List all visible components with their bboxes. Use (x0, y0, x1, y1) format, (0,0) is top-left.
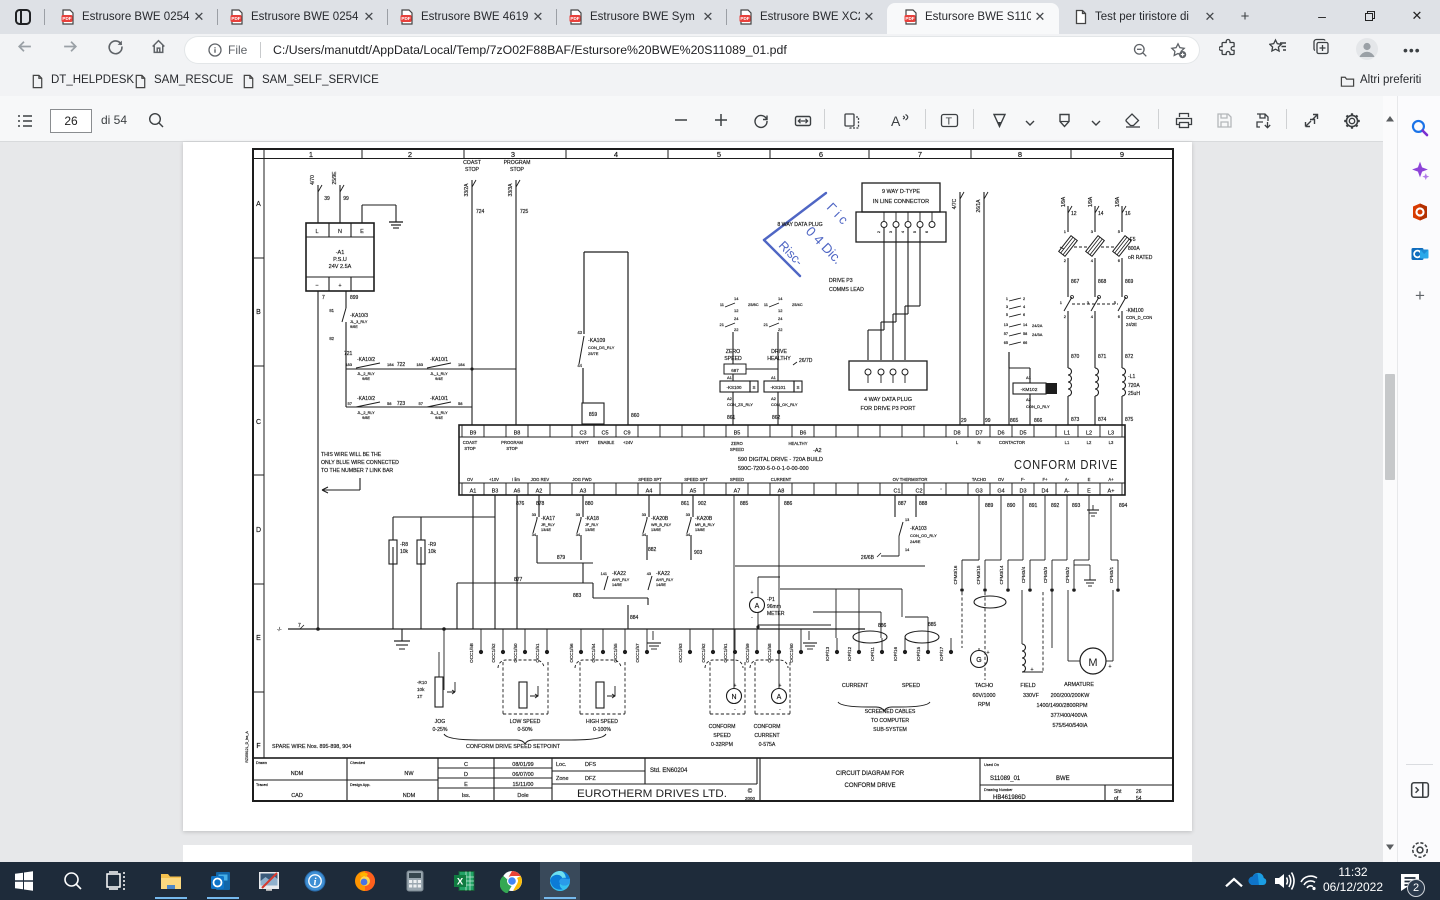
svg-text:21: 21 (764, 322, 769, 327)
svg-text:15/11/00: 15/11/00 (512, 782, 533, 788)
svg-text:903: 903 (694, 550, 703, 556)
svg-text:IOP/17: IOP/17 (939, 646, 944, 661)
svg-text:A1: A1 (470, 489, 477, 495)
svg-text:OV THERMISTOR: OV THERMISTOR (893, 477, 928, 482)
svg-text:24: 24 (734, 316, 739, 321)
svg-text:-R9: -R9 (428, 542, 436, 548)
svg-text:METER: METER (767, 611, 785, 617)
svg-text:-KS101: -KS101 (770, 385, 786, 390)
svg-text:200/200/200KW: 200/200/200KW (1051, 693, 1091, 699)
svg-text:FOR DRIVE P3 PORT: FOR DRIVE P3 PORT (861, 406, 917, 412)
svg-text:P.S.U: P.S.U (333, 257, 347, 263)
svg-text:SPEED: SPEED (713, 733, 731, 739)
svg-text:889: 889 (985, 503, 994, 509)
svg-text:E: E (1087, 489, 1091, 495)
svg-text:DFZ: DFZ (585, 776, 596, 782)
svg-text:1: 1 (309, 150, 313, 159)
svg-text:PDF: PDF (740, 16, 749, 21)
svg-text:26/1A: 26/1A (976, 199, 982, 213)
svg-text:34: 34 (686, 533, 690, 537)
svg-text:0-25%: 0-25% (433, 727, 448, 733)
svg-text:N: N (338, 229, 342, 235)
svg-text:CURRENT: CURRENT (754, 733, 780, 739)
svg-text:4: 4 (614, 150, 618, 159)
svg-text:L2: L2 (1086, 431, 1092, 437)
svg-text:COAST: COAST (463, 440, 478, 445)
svg-text:25uH: 25uH (1128, 391, 1140, 397)
svg-text:43: 43 (577, 330, 582, 335)
svg-text:HIGH SPEED: HIGH SPEED (586, 719, 618, 725)
svg-text:58: 58 (387, 401, 392, 406)
svg-text:34: 34 (532, 533, 536, 537)
svg-text:60V/1000: 60V/1000 (972, 693, 995, 699)
svg-text:57: 57 (1004, 332, 1008, 336)
svg-text:CFM3/1: CFM3/1 (1109, 566, 1114, 583)
svg-text:26/7D: 26/7D (799, 358, 813, 364)
svg-text:878: 878 (536, 501, 545, 507)
svg-text:58: 58 (458, 401, 463, 406)
svg-text:PDF: PDF (62, 16, 71, 21)
svg-text:-KS100: -KS100 (726, 385, 742, 390)
svg-text:9/4E: 9/4E (435, 377, 443, 381)
svg-text:882: 882 (648, 547, 657, 553)
svg-text:IOP/16: IOP/16 (893, 646, 898, 661)
svg-text:CAD: CAD (291, 793, 303, 799)
svg-text:STOP: STOP (506, 446, 518, 451)
svg-text:AHR_RLY: AHR_RLY (612, 578, 630, 582)
svg-text:B3: B3 (492, 489, 499, 495)
svg-text:65: 65 (1004, 341, 1008, 345)
svg-text:CONFORM DRIVE SPEED SETPOINT: CONFORM DRIVE SPEED SETPOINT (466, 744, 561, 750)
svg-text:14: 14 (734, 296, 739, 301)
svg-text:AHR_RLY: AHR_RLY (656, 578, 674, 582)
svg-text:F-: F- (1021, 477, 1026, 482)
svg-text:860: 860 (631, 413, 640, 419)
svg-text:C5: C5 (601, 431, 608, 437)
svg-text:JOG REV: JOG REV (531, 477, 550, 482)
svg-text:06/07/00: 06/07/00 (512, 772, 533, 778)
svg-text:A6: A6 (514, 489, 521, 495)
svg-text:875: 875 (1125, 417, 1134, 423)
svg-text:3: 3 (1006, 305, 1008, 309)
svg-text:-R10: -R10 (417, 680, 427, 685)
svg-text:800A: 800A (1128, 246, 1140, 252)
svg-text:E: E (360, 229, 364, 235)
svg-text:9/6E: 9/6E (350, 325, 358, 329)
svg-text:T: T (946, 116, 953, 128)
svg-text:687: 687 (731, 368, 739, 373)
svg-text:Zone: Zone (556, 776, 569, 782)
svg-text:RPM: RPM (978, 702, 990, 708)
svg-text:4: 4 (1091, 258, 1094, 263)
svg-text:of: of (1114, 796, 1119, 802)
svg-text:Std. EN60204: Std. EN60204 (650, 768, 688, 774)
svg-text:34: 34 (576, 533, 580, 537)
svg-text:C9: C9 (623, 431, 630, 437)
svg-text:21: 21 (720, 322, 725, 327)
svg-text:14: 14 (905, 548, 909, 552)
svg-text:24/6E: 24/6E (910, 539, 921, 544)
svg-text:874: 874 (1098, 417, 1107, 423)
svg-text:+10V: +10V (489, 477, 499, 482)
svg-text:10k: 10k (400, 549, 409, 555)
svg-text:1/9A: 1/9A (1088, 196, 1094, 207)
svg-text:CIRCUIT DIAGRAM FOR: CIRCUIT DIAGRAM FOR (836, 771, 905, 777)
svg-text:81: 81 (329, 308, 334, 313)
svg-text:A+: A+ (1108, 489, 1115, 495)
svg-text:NW: NW (404, 771, 414, 777)
svg-text:STOP: STOP (510, 167, 525, 173)
svg-text:PDF: PDF (231, 16, 240, 21)
svg-text:JOG: JOG (435, 719, 446, 725)
svg-text:25/7E: 25/7E (588, 351, 599, 356)
svg-text:893: 893 (1072, 503, 1081, 509)
svg-text:OCC1/55: OCC1/55 (613, 643, 618, 663)
svg-text:A2: A2 (1026, 397, 1032, 402)
svg-text:26: 26 (1136, 789, 1142, 795)
svg-text:34: 34 (642, 533, 646, 537)
svg-text:12: 12 (778, 308, 783, 313)
svg-text:F+: F+ (1042, 477, 1048, 482)
svg-text:SPEED: SPEED (730, 477, 744, 482)
svg-text:-/-: -/- (277, 627, 282, 633)
svg-text:13/8E: 13/8E (695, 528, 705, 532)
svg-text:0-575A: 0-575A (759, 742, 776, 748)
svg-text:868: 868 (1098, 279, 1107, 285)
svg-text:D4: D4 (1041, 489, 1048, 495)
svg-text:DFS: DFS (585, 762, 596, 768)
svg-text:COMMS LEAD: COMMS LEAD (829, 287, 864, 293)
svg-text:725: 725 (520, 209, 529, 215)
svg-text:894: 894 (1119, 503, 1128, 509)
svg-text:25/8C: 25/8C (748, 302, 759, 307)
svg-text:ZERO: ZERO (726, 349, 740, 355)
svg-text:14/5E: 14/5E (612, 583, 622, 587)
svg-text:25/9E: 25/9E (332, 171, 338, 185)
svg-text:IOP/15: IOP/15 (916, 646, 921, 661)
svg-text:-: - (779, 707, 781, 713)
svg-text:3: 3 (889, 231, 893, 233)
svg-text:C1: C1 (893, 489, 900, 495)
svg-text:724: 724 (476, 209, 485, 215)
svg-text:PROGRAM: PROGRAM (504, 160, 531, 166)
svg-text:HEALTHY: HEALTHY (788, 441, 807, 446)
svg-text:-KM102: -KM102 (1021, 387, 1038, 393)
svg-text:CONFORM DRIVE: CONFORM DRIVE (845, 783, 896, 789)
svg-text:+: + (734, 683, 737, 689)
svg-text:58: 58 (1023, 332, 1027, 336)
svg-text:D5: D5 (1019, 431, 1026, 437)
svg-text:-A1: -A1 (336, 250, 345, 256)
svg-text:S11089_01: S11089_01 (990, 776, 1021, 782)
svg-text:CONTACTOR: CONTACTOR (999, 440, 1025, 445)
svg-text:Risc-: Risc- (776, 238, 806, 268)
svg-text:3: 3 (1091, 229, 1094, 234)
svg-text:1T: 1T (417, 694, 423, 699)
svg-text:CURRENT: CURRENT (771, 477, 792, 482)
svg-text:590 DIGITAL DRIVE - 720A BUILD: 590 DIGITAL DRIVE - 720A BUILD (738, 457, 823, 463)
svg-text:872: 872 (1125, 354, 1134, 360)
svg-text:2: 2 (1064, 258, 1067, 263)
svg-text:1/9A: 1/9A (1115, 196, 1121, 207)
svg-text:SCREENED CABLES: SCREENED CABLES (865, 709, 916, 715)
svg-text:-KA22: -KA22 (656, 571, 670, 577)
svg-text:9: 9 (1120, 150, 1124, 159)
svg-text:721: 721 (344, 351, 353, 357)
svg-text:D6: D6 (997, 431, 1004, 437)
svg-text:880: 880 (585, 501, 594, 507)
svg-text:1: 1 (1064, 229, 1067, 234)
svg-text:-: - (751, 615, 753, 621)
svg-text:886: 886 (784, 501, 793, 507)
svg-text:L3: L3 (1109, 440, 1114, 445)
svg-text:43: 43 (647, 572, 651, 576)
svg-text:08/01/99: 08/01/99 (512, 762, 533, 768)
svg-text:TO THE NUMBER 7 LINK BAR: TO THE NUMBER 7 LINK BAR (321, 468, 393, 474)
svg-text:-P1: -P1 (767, 597, 775, 603)
svg-text:CFM3/2: CFM3/2 (1065, 566, 1070, 583)
svg-text:7: 7 (322, 295, 325, 301)
svg-text:N: N (977, 440, 980, 445)
svg-text:EUROTHERM DRIVES LTD.: EUROTHERM DRIVES LTD. (577, 788, 727, 800)
svg-text:HB461986D: HB461986D (993, 795, 1026, 801)
svg-text:870: 870 (1071, 354, 1080, 360)
svg-text:A: A (256, 201, 261, 208)
svg-text:888: 888 (919, 501, 928, 507)
svg-text:885: 885 (740, 501, 749, 507)
svg-text:CFM3/15: CFM3/15 (976, 565, 981, 584)
svg-text:884: 884 (630, 615, 639, 621)
svg-text:16: 16 (1125, 211, 1131, 217)
svg-text:Drawing Number: Drawing Number (984, 788, 1013, 792)
svg-text:THIS WIRE WILL BE THE: THIS WIRE WILL BE THE (321, 452, 382, 458)
svg-text:7: 7 (918, 150, 922, 159)
svg-text:oR RATED: oR RATED (1128, 255, 1153, 261)
svg-text:869: 869 (1125, 279, 1134, 285)
svg-text:RZ35812L_D_lss_A: RZ35812L_D_lss_A (245, 731, 249, 763)
svg-text:+: + (1030, 667, 1033, 673)
svg-text:CON_ZS_RLY: CON_ZS_RLY (727, 402, 753, 407)
svg-text:-: - (734, 707, 736, 713)
svg-text:TACHO: TACHO (972, 477, 987, 482)
svg-text:D8: D8 (953, 431, 960, 437)
svg-text:L1: L1 (1064, 431, 1070, 437)
svg-text:ENABLE: ENABLE (598, 440, 615, 445)
svg-text:Iss.: Iss. (462, 793, 471, 799)
svg-text:-KA20B: -KA20B (695, 516, 713, 522)
svg-text:0-50%: 0-50% (518, 727, 533, 733)
svg-text:-KA10/1: -KA10/1 (430, 357, 448, 363)
svg-text:590C-7200-5-0-0-1-0-00-000: 590C-7200-5-0-0-1-0-00-000 (738, 466, 809, 472)
svg-text:N: N (731, 694, 736, 701)
svg-text:2: 2 (408, 150, 412, 159)
svg-text:A-: A- (1064, 489, 1070, 495)
svg-text:7: 7 (298, 623, 301, 629)
svg-text:FIELD: FIELD (1020, 683, 1035, 689)
svg-text:A2: A2 (536, 489, 543, 495)
svg-text:8: 8 (1018, 150, 1022, 159)
svg-text:867: 867 (1071, 279, 1080, 285)
svg-text:CON_OK_RLY: CON_OK_RLY (771, 402, 798, 407)
svg-text:6: 6 (925, 231, 929, 233)
svg-text:CONFORM DRIVE: CONFORM DRIVE (1014, 458, 1118, 472)
svg-text:C3: C3 (579, 431, 586, 437)
svg-text:5: 5 (717, 150, 721, 159)
svg-text:8 WAY DATA PLUG: 8 WAY DATA PLUG (777, 222, 822, 228)
svg-text:99: 99 (343, 196, 349, 202)
svg-text:5: 5 (1118, 229, 1121, 234)
svg-text:13: 13 (905, 518, 909, 522)
svg-text:A5: A5 (690, 489, 697, 495)
svg-text:44: 44 (577, 363, 582, 368)
svg-text:885: 885 (928, 622, 937, 628)
svg-text:Traced: Traced (256, 783, 268, 787)
svg-text:JL_2_RLY: JL_2_RLY (357, 411, 375, 415)
svg-text:890: 890 (1007, 503, 1016, 509)
svg-text:B5: B5 (734, 431, 741, 437)
svg-text:14: 14 (1098, 211, 1104, 217)
svg-text:2: 2 (1064, 314, 1067, 319)
svg-text:A1: A1 (727, 375, 733, 380)
svg-text:862: 862 (772, 415, 781, 421)
svg-text:MR_B_RLY: MR_B_RLY (695, 523, 715, 527)
svg-text:A8: A8 (778, 489, 785, 495)
svg-text:9/4E: 9/4E (435, 416, 443, 420)
svg-text:CONFORM: CONFORM (709, 724, 736, 730)
svg-text:A2: A2 (727, 396, 733, 401)
svg-text:TO COMPUTER: TO COMPUTER (871, 718, 909, 724)
svg-text:184: 184 (458, 362, 465, 367)
svg-text:DRIVE: DRIVE (771, 349, 787, 355)
svg-text:BWE: BWE (1056, 776, 1070, 782)
svg-text:L3: L3 (1108, 431, 1114, 437)
svg-text:13/5E: 13/5E (585, 528, 595, 532)
svg-text:Sht: Sht (1114, 789, 1122, 795)
svg-text:ONLY BLUE WIRE CONNECTED: ONLY BLUE WIRE CONNECTED (321, 460, 399, 466)
svg-text:11: 11 (764, 302, 769, 307)
svg-text:ARMATURE: ARMATURE (1064, 682, 1094, 688)
svg-text:NDM: NDM (403, 793, 416, 799)
svg-text:2000: 2000 (745, 796, 756, 801)
svg-text:OCC1/57: OCC1/57 (635, 643, 640, 663)
svg-text:OCC1/60: OCC1/60 (789, 643, 794, 663)
svg-text:OCC1/5B: OCC1/5B (469, 643, 474, 663)
svg-text:-KA10/1: -KA10/1 (430, 396, 448, 402)
svg-text:26/6B: 26/6B (861, 555, 875, 561)
svg-text:JL_1_RLY: JL_1_RLY (430, 411, 448, 415)
svg-text:CON_D_CON: CON_D_CON (1126, 315, 1152, 320)
svg-text:SPARE WIRE Nos. 895-898, 904: SPARE WIRE Nos. 895-898, 904 (272, 744, 351, 750)
svg-text:24/2A: 24/2A (1032, 323, 1043, 328)
svg-text:S: S (796, 385, 799, 390)
svg-text:879: 879 (557, 555, 566, 561)
svg-text:+: + (986, 650, 989, 656)
svg-text:6: 6 (1118, 258, 1121, 263)
svg-text:E: E (1088, 477, 1091, 482)
svg-text:PROGRAM: PROGRAM (501, 440, 523, 445)
svg-text:JF_RLY: JF_RLY (585, 523, 599, 527)
svg-text:6: 6 (819, 150, 823, 159)
svg-text:Checked: Checked (350, 761, 365, 765)
svg-text:4: 4 (1091, 314, 1094, 319)
svg-text:24V 2.5A: 24V 2.5A (329, 264, 352, 270)
svg-text:9 WAY D-TYPE: 9 WAY D-TYPE (882, 189, 920, 195)
svg-text:A: A (755, 603, 760, 610)
svg-text:L: L (315, 229, 318, 235)
svg-text:11: 11 (720, 302, 725, 307)
svg-text:OCC1/56: OCC1/56 (569, 643, 574, 663)
svg-text:PDF: PDF (401, 16, 410, 21)
svg-text:A: A (777, 694, 782, 701)
svg-text:902: 902 (698, 501, 707, 507)
svg-text:14: 14 (1023, 323, 1027, 327)
svg-text:330VF: 330VF (1023, 693, 1040, 699)
svg-text:0 4 Dic.: 0 4 Dic. (803, 224, 846, 267)
svg-text:22: 22 (778, 327, 783, 332)
svg-text:STOP: STOP (465, 167, 480, 173)
svg-text:865: 865 (1010, 418, 1019, 424)
svg-text:33/2A: 33/2A (464, 183, 470, 197)
svg-text:S: S (752, 385, 755, 390)
svg-text:+: + (751, 590, 754, 596)
svg-text:720A: 720A (1128, 383, 1140, 389)
svg-text:6: 6 (1023, 313, 1025, 317)
svg-text:723: 723 (397, 401, 406, 407)
svg-text:OCC1/62: OCC1/62 (701, 643, 706, 663)
svg-text:CON_OD_RLY: CON_OD_RLY (910, 533, 937, 538)
svg-text:141: 141 (601, 572, 607, 576)
svg-text:9/8E: 9/8E (362, 416, 370, 420)
svg-text:25/4C: 25/4C (792, 302, 803, 307)
svg-text:IOP/12: IOP/12 (847, 646, 852, 661)
svg-text:-L1: -L1 (1128, 374, 1135, 380)
svg-text:12: 12 (734, 308, 739, 313)
svg-text:Design App.: Design App. (350, 783, 370, 787)
svg-text:G: G (976, 657, 981, 664)
svg-text:A: A (891, 113, 901, 129)
svg-text:SPEED: SPEED (724, 356, 742, 362)
svg-text:39: 39 (324, 196, 330, 202)
svg-text:HEALTHY: HEALTHY (767, 356, 791, 362)
svg-text:F: F (256, 743, 260, 750)
svg-text:33: 33 (642, 513, 646, 517)
svg-text:L2: L2 (1087, 440, 1092, 445)
svg-text:OCC1/52: OCC1/52 (491, 643, 496, 663)
svg-text:+: + (1108, 664, 1111, 670)
svg-text:A4: A4 (646, 489, 653, 495)
svg-text:4: 4 (901, 231, 905, 233)
svg-text:A1: A1 (771, 375, 777, 380)
svg-text:12: 12 (1071, 211, 1077, 217)
svg-text:33: 33 (686, 513, 690, 517)
svg-text:2: 2 (1023, 297, 1025, 301)
svg-text:-F5: -F5 (1128, 237, 1136, 243)
svg-text:14: 14 (778, 296, 783, 301)
svg-text:877: 877 (514, 577, 523, 583)
svg-text:1: 1 (1006, 297, 1008, 301)
svg-text:14/5E: 14/5E (656, 583, 666, 587)
svg-text:24/3A: 24/3A (1032, 332, 1043, 337)
svg-text:M: M (1088, 657, 1097, 669)
svg-text:96mm: 96mm (767, 604, 781, 610)
svg-text:183: 183 (416, 362, 423, 367)
svg-text:IOP/13: IOP/13 (825, 646, 830, 661)
svg-text:-KA109: -KA109 (588, 338, 605, 344)
svg-text:C: C (256, 419, 261, 426)
svg-text:PDF: PDF (905, 16, 914, 21)
svg-text:13/6E: 13/6E (651, 528, 661, 532)
svg-text:859: 859 (589, 412, 598, 418)
